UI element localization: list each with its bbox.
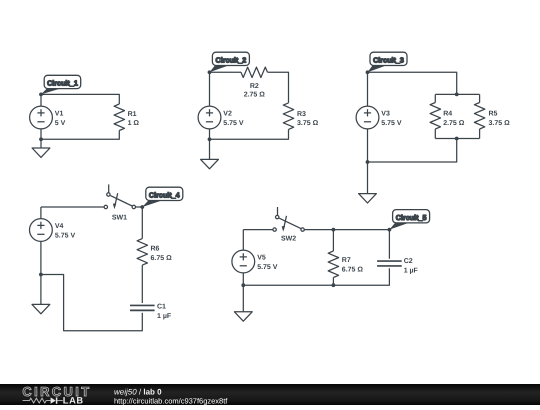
svg-text:Circuit_5: Circuit_5 <box>396 213 427 222</box>
svg-text:R7: R7 <box>342 257 351 264</box>
svg-text:V2: V2 <box>223 111 232 118</box>
svg-text:SW1: SW1 <box>112 215 127 222</box>
svg-text:Circuit_4: Circuit_4 <box>149 191 180 200</box>
svg-text:5.75 V: 5.75 V <box>55 232 76 239</box>
svg-text:5.75 V: 5.75 V <box>257 264 278 271</box>
svg-text:R2: R2 <box>250 83 259 90</box>
svg-text:5 V: 5 V <box>55 120 66 127</box>
svg-text:Circuit_1: Circuit_1 <box>47 79 78 88</box>
svg-text:2.75 Ω: 2.75 Ω <box>443 120 465 127</box>
svg-text:6.75 Ω: 6.75 Ω <box>342 266 364 273</box>
svg-text:R4: R4 <box>443 111 452 118</box>
svg-text:R3: R3 <box>297 111 306 118</box>
svg-text:1 µF: 1 µF <box>404 267 419 274</box>
svg-text:V3: V3 <box>381 111 390 118</box>
svg-text:http://circuitlab.com/c937f6gz: http://circuitlab.com/c937f6gzex8tf <box>114 397 228 405</box>
svg-text:1 µF: 1 µF <box>157 313 172 320</box>
svg-text:C1: C1 <box>157 304 166 311</box>
svg-text:LAB: LAB <box>63 395 84 405</box>
svg-text:1 Ω: 1 Ω <box>128 120 140 127</box>
svg-text:V1: V1 <box>55 111 64 118</box>
svg-text:2.75 Ω: 2.75 Ω <box>244 92 266 99</box>
svg-text:5.75 V: 5.75 V <box>223 120 244 127</box>
svg-text:V4: V4 <box>55 223 64 230</box>
svg-text:6.75 Ω: 6.75 Ω <box>151 255 173 262</box>
svg-text:R5: R5 <box>489 111 498 118</box>
svg-text:Circuit_3: Circuit_3 <box>373 56 404 65</box>
svg-text:R6: R6 <box>151 246 160 253</box>
svg-text:C2: C2 <box>404 258 413 265</box>
svg-text:V5: V5 <box>257 255 266 262</box>
svg-text:3.75 Ω: 3.75 Ω <box>297 120 319 127</box>
svg-text:Circuit_2: Circuit_2 <box>216 56 247 65</box>
svg-text:3.75 Ω: 3.75 Ω <box>489 120 511 127</box>
svg-text:R1: R1 <box>128 111 137 118</box>
svg-text:SW2: SW2 <box>281 236 296 243</box>
svg-text:weij50 / lab 0: weij50 / lab 0 <box>114 387 162 396</box>
svg-text:5.75 V: 5.75 V <box>381 120 402 127</box>
